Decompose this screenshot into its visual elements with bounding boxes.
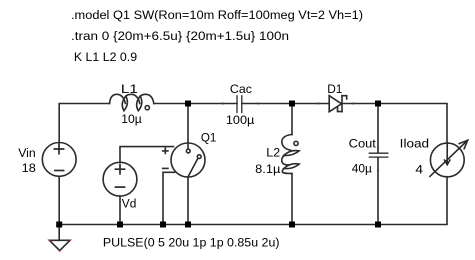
svg-text:.tran 0 {20m+6.5u} {20m+1.5u}: .tran 0 {20m+6.5u} {20m+1.5u} 100n — [71, 29, 289, 43]
svg-text:Iload: Iload — [400, 136, 430, 150]
svg-text:L2: L2 — [266, 145, 280, 159]
svg-text:Vd: Vd — [122, 196, 137, 210]
svg-text:10µ: 10µ — [121, 112, 142, 126]
svg-text:4: 4 — [415, 163, 423, 177]
svg-text:Cac: Cac — [230, 82, 252, 96]
svg-text:Q1: Q1 — [201, 131, 217, 145]
svg-text:40µ: 40µ — [352, 162, 372, 176]
svg-text:K L1 L2 0.9: K L1 L2 0.9 — [74, 50, 137, 64]
svg-text:8.1µ: 8.1µ — [255, 162, 280, 176]
svg-text:18: 18 — [22, 161, 36, 175]
svg-text:Vin: Vin — [18, 146, 36, 160]
svg-text:D1: D1 — [327, 82, 342, 96]
svg-text:100µ: 100µ — [226, 113, 254, 127]
svg-text:PULSE(0 5 20u 1p 1p 0.85u 2u): PULSE(0 5 20u 1p 1p 0.85u 2u) — [103, 236, 280, 250]
svg-text:.model Q1 SW(Ron=10m Roff=100m: .model Q1 SW(Ron=10m Roff=100meg Vt=2 Vh… — [71, 8, 363, 22]
svg-text:L1: L1 — [121, 82, 138, 96]
svg-text:Cout: Cout — [349, 136, 377, 150]
